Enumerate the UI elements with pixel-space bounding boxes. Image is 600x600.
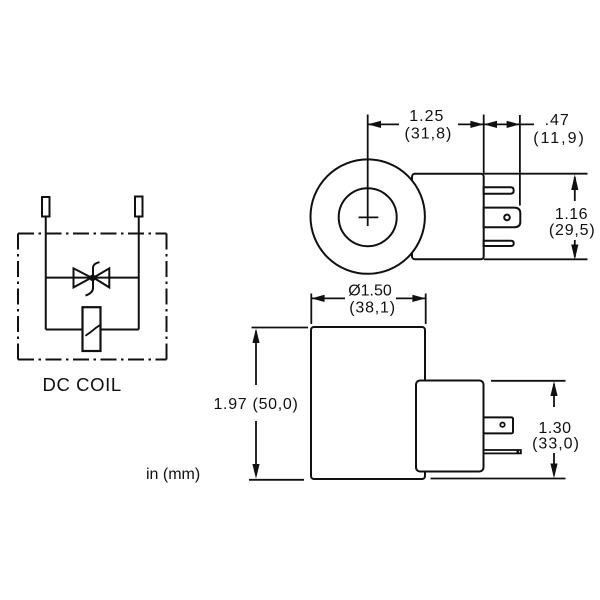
enclosure dash-dot boundary xyxy=(18,234,167,360)
extension line at terminal tip xyxy=(519,115,521,206)
middle spade terminal with hole (bottom view) xyxy=(484,417,514,433)
terminal pin 1 (left spade) xyxy=(42,197,50,217)
bottom thin terminal edge-on (bottom view) xyxy=(484,450,521,453)
arrowheads for 1.16 dimension xyxy=(571,175,578,260)
dimension text 1.25 (31,8) xyxy=(405,108,453,143)
dimension line 1.97 with arrowheads xyxy=(252,329,259,479)
spade terminal bottom (side view) xyxy=(484,241,514,246)
coil outer circle (front view) xyxy=(311,159,425,273)
svg-text:in (mm): in (mm) xyxy=(146,466,200,483)
svg-text:(33,0): (33,0) xyxy=(532,436,580,453)
arrowheads for 1.30 dimension xyxy=(550,381,557,478)
dimension text 1.16 (29,5) xyxy=(549,206,596,239)
svg-text:.47: .47 xyxy=(545,112,570,129)
dimension text .47 (11,9) xyxy=(533,112,586,147)
arrowheads for 1.25 dimension xyxy=(368,121,484,128)
wire: middle horizontal branch through TVS diode xyxy=(46,277,139,279)
dimension text 1.30 (33,0) xyxy=(532,420,580,453)
center line vertical (extension for 1.25) xyxy=(367,115,369,227)
dimension line diameter 1.50 xyxy=(311,297,425,299)
svg-text:1.16: 1.16 xyxy=(555,206,588,223)
svg-text:1.25: 1.25 xyxy=(409,108,444,125)
spade terminal top (side view) xyxy=(484,187,514,193)
svg-text:(29,5): (29,5) xyxy=(549,222,596,239)
dimension line 1.25 / .47 xyxy=(368,123,534,125)
dimension text diameter 1.50 (38,1) xyxy=(348,282,396,316)
svg-text:(38,1): (38,1) xyxy=(349,300,396,317)
wire: bottom bus through coil xyxy=(46,329,139,331)
extension lines for 1.30 (top and bottom) xyxy=(431,381,566,479)
svg-text:1.97 (50,0): 1.97 (50,0) xyxy=(213,396,298,413)
spade terminal middle with hole (side view) xyxy=(484,208,521,228)
svg-text:Ø1.50: Ø1.50 xyxy=(348,282,392,299)
coil inner circle (front view) xyxy=(339,188,397,246)
wire: left vertical from terminal 1 to bottom bus xyxy=(45,217,47,330)
crosshair horizontal xyxy=(359,216,379,218)
label DC COIL xyxy=(43,374,122,395)
extension lines for 1.97 (top and bottom) xyxy=(249,328,308,480)
label in (mm) xyxy=(146,466,200,483)
coil L1 (solenoid winding symbol) xyxy=(83,307,101,351)
dimension text 1.97 (50,0) xyxy=(213,396,298,413)
svg-text:DC COIL: DC COIL xyxy=(43,374,122,395)
arrowheads for .47 dimension xyxy=(484,121,520,128)
extension lines for diameter 1.50 xyxy=(311,294,425,325)
side body rectangle (top view) xyxy=(412,174,484,260)
svg-text:1.30: 1.30 xyxy=(538,420,571,437)
terminal pin 2 (right spade) xyxy=(135,197,143,217)
extension lines for 1.16 (top and bottom) xyxy=(484,174,588,260)
connector block xyxy=(416,381,484,472)
extension line at body right edge xyxy=(483,115,485,174)
svg-text:(11,9): (11,9) xyxy=(533,130,586,147)
wire: right vertical from terminal 2 to bottom bus xyxy=(138,217,140,330)
TVS diode D1 (bidirectional suppressor) xyxy=(74,262,110,295)
svg-text:(31,8): (31,8) xyxy=(405,126,453,143)
main body rectangle (bottom view) xyxy=(311,327,425,479)
arrowheads for diameter 1.50 xyxy=(311,295,425,302)
